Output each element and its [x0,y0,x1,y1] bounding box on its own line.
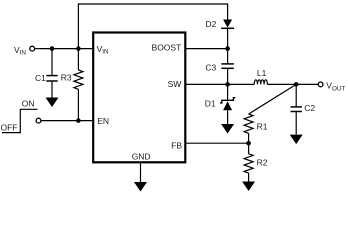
node ON-OFF step waveform [2,109,38,132]
node EN terminal [36,118,41,123]
capacitor C2 [291,84,302,134]
diode D2 [221,20,234,29]
node junction R3 top tap [76,46,81,51]
svg-text:FB: FB [171,140,182,150]
wire GND pin [140,163,142,182]
label R3 [61,72,72,82]
label C2 [304,103,315,113]
node VIN label [14,45,26,57]
resistor R2 [244,143,253,181]
svg-text:C2: C2 [304,103,315,113]
node VOUT label [326,81,345,93]
node VIN terminal [30,46,35,51]
svg-text:ON: ON [22,98,35,108]
node junction FB [246,141,251,146]
node junction BOOST [225,46,230,51]
ground D1 [221,124,234,134]
svg-text:C1: C1 [35,73,46,83]
svg-text:L1: L1 [257,68,267,78]
resistor R3 [74,49,83,121]
node VOUT terminal [318,82,323,87]
label C1 [35,73,46,83]
node junction C1 tap [50,46,55,51]
ground R2 [242,182,255,192]
pin VIN label (inside IC) [97,44,109,56]
wire feedback diagonal [249,84,297,114]
pin EN label [97,116,109,126]
node junction VOUT [294,82,299,87]
ground GND pin [134,182,147,192]
svg-text:BOOST: BOOST [152,42,182,52]
svg-text:R1: R1 [257,121,268,131]
pin FB label [171,140,182,150]
inductor L1 [254,80,267,85]
svg-text:EN: EN [97,116,109,126]
ground C2 [290,135,303,145]
wire VIN input [35,48,93,50]
op-amp U1 regulator IC box [93,33,185,163]
label D1 [205,98,216,108]
capacitor C1 [46,49,57,98]
wire D2 to BOOST node [227,29,229,64]
label C3 [205,63,216,73]
diode D1 schottky [220,84,235,124]
wire SW pin [185,83,254,85]
label ON [22,98,35,108]
wire L1 to VOUT [267,83,318,85]
pin SW label [168,79,182,89]
svg-text:C3: C3 [205,63,216,73]
wire BOOST pin [185,48,227,50]
label R2 [257,158,268,168]
label R1 [257,121,268,131]
label L1 [257,68,267,78]
label D2 [206,19,217,29]
pin BOOST label [152,42,182,52]
node junction R3 bottom EN [76,118,81,123]
label OFF [1,122,18,132]
svg-text:R3: R3 [61,72,72,82]
svg-text:SW: SW [168,79,182,89]
wire top boost feed [78,4,227,49]
svg-text:OFF: OFF [1,122,18,132]
node junction SW-D1 [225,82,230,87]
svg-text:R2: R2 [257,158,268,168]
svg-text:D1: D1 [205,98,216,108]
wire EN [41,120,93,122]
svg-text:D2: D2 [206,19,217,29]
wire FB pin [185,142,248,144]
svg-text:GND: GND [132,152,151,162]
ground C1 [46,98,59,108]
pin GND label [132,152,151,162]
resistor R1 [244,114,253,143]
capacitor C3 [221,64,233,85]
